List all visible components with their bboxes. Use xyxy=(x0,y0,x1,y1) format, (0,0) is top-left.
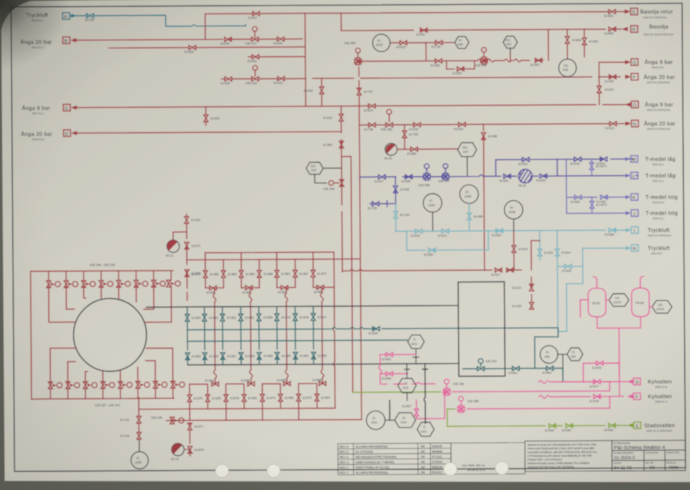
node K box xyxy=(631,194,638,201)
instrument TI XXX mid hexagon xyxy=(398,378,417,393)
arrow into F xyxy=(627,394,633,398)
valve 6J-891 vertical xyxy=(242,395,246,402)
wire R-line basolja xyxy=(341,29,621,31)
valve 6J-703 vertical xyxy=(402,131,406,138)
wire PI1048 red drop 6J-623 xyxy=(513,231,515,270)
pair valve 6J-888 xyxy=(319,381,326,385)
instrument FI 046 xyxy=(540,346,558,364)
wire H-line tryckluft xyxy=(583,247,626,249)
valve 6J-864 xyxy=(512,366,519,370)
wire F link down xyxy=(609,396,611,408)
notes block xyxy=(525,441,612,472)
teal valve 6J-857 xyxy=(221,353,225,360)
wire vertical 340 C to 617-line xyxy=(341,106,342,272)
valve 6J-651 xyxy=(504,174,511,178)
valve 6J-679 xyxy=(596,361,603,365)
wire A collect line xyxy=(205,251,334,254)
valve 6J-635 vertical xyxy=(204,115,208,122)
wire vertical 304.9 B to C xyxy=(304,39,307,106)
wire pink lower link line xyxy=(416,392,444,419)
teal valve 6J-859 xyxy=(257,352,261,359)
wire pink 896 branch xyxy=(380,373,408,375)
spray valve 6JE-336 xyxy=(167,280,181,287)
level alarm LIA hexagon 1 xyxy=(609,294,629,307)
valve 6J-892b xyxy=(609,423,616,427)
black internals line upper xyxy=(146,305,458,307)
valve 6J-610 xyxy=(400,41,407,45)
node O box xyxy=(631,101,638,108)
bottom manifold unit stubs xyxy=(50,388,173,399)
valve 6J-4274 vertical xyxy=(591,159,593,176)
wire purple drop 394 xyxy=(394,177,396,204)
wire K riser 565 xyxy=(565,159,567,213)
valve 6J-625b xyxy=(225,77,232,81)
valve 6J-638 xyxy=(609,228,616,232)
valve 6J-652 xyxy=(522,157,529,161)
control valve 6JE-357 xyxy=(477,367,484,371)
valve 6J-617 xyxy=(507,268,514,272)
valve 6J-601 xyxy=(609,10,616,14)
valve 6J-876 vertical xyxy=(187,395,191,402)
wire 6J-635 drop xyxy=(205,107,207,125)
valve 6J-896 xyxy=(386,372,393,376)
wire 642 drop xyxy=(539,231,541,260)
teal valve 6J-847 xyxy=(311,314,315,321)
valve 6J-677 xyxy=(593,380,600,384)
wire G link down xyxy=(609,382,611,391)
pink vessel YD-01 xyxy=(588,288,606,317)
valve 6J-647 xyxy=(600,157,607,161)
bottom valve row verticals xyxy=(190,390,318,420)
valve 6J-619 xyxy=(459,122,466,126)
valve 6J-889 vertical xyxy=(278,394,282,401)
valve 6J-629 xyxy=(189,45,196,49)
valve 6J-622 xyxy=(457,67,464,71)
control valve 6JE-317 xyxy=(251,37,258,41)
arrow into Q xyxy=(625,60,631,64)
valve 6J-893 vertical xyxy=(206,395,210,402)
control valve 6JE-359 xyxy=(443,388,450,395)
teal valve 6J-849 xyxy=(275,314,279,321)
teal valve 6J-848 xyxy=(293,314,297,321)
wire vessel outlet teal xyxy=(463,368,563,382)
wire 6J-632 line xyxy=(248,56,305,58)
spray valve 6JE-333 xyxy=(117,280,131,287)
valve 6J-731 vertical xyxy=(137,416,141,423)
wire bottom pair drops xyxy=(189,383,316,391)
valve 6J-653 xyxy=(540,174,547,178)
wire TI mid stub xyxy=(406,393,408,401)
wire green riser to E-line xyxy=(446,409,448,426)
arrow into M xyxy=(625,157,631,161)
valve 6J-875 vertical xyxy=(224,395,228,402)
wire 897 drop xyxy=(415,400,417,419)
valve 6J-877 vertical xyxy=(188,423,192,430)
wire bottom manifold header xyxy=(31,397,174,400)
node G box xyxy=(633,378,640,385)
valve 6J-649 xyxy=(600,195,607,199)
spray valve 6JE-338 xyxy=(66,382,80,389)
valve 6J-689 xyxy=(411,147,418,151)
valve 6J-963 vertical xyxy=(339,141,343,148)
punch hole 3 xyxy=(444,462,457,475)
valve 6J-863 xyxy=(546,366,553,370)
valve 6J-878 vertical xyxy=(188,446,192,453)
wire teal line2 xyxy=(187,340,407,341)
vessel YD-01 drain stub xyxy=(580,300,588,317)
teal valve 6J-851 xyxy=(239,314,243,321)
valve 6J-943 xyxy=(565,264,572,268)
instrument FI XXX circle xyxy=(366,411,385,430)
wire M-L riser 494.5 xyxy=(495,160,497,177)
arrow into J xyxy=(626,211,632,215)
arrow into K xyxy=(625,195,631,199)
wire second steam line 6J-629 xyxy=(109,47,305,48)
wire collector A-prime xyxy=(139,408,335,409)
valve 6J-885 vertical xyxy=(203,271,207,278)
valve 6J-650 xyxy=(575,195,582,199)
wire S-drop at 304.9 xyxy=(304,13,306,39)
arrow into G xyxy=(627,379,633,383)
spray valve 6JE-329 xyxy=(47,281,61,288)
sample point 62-12 xyxy=(172,443,184,455)
valve 6J-634 xyxy=(368,104,375,108)
arrow into S xyxy=(625,9,631,13)
valve 6J-869 vertical xyxy=(221,271,225,278)
level alarm LIA hexagon 2 xyxy=(652,301,672,314)
wire 6J-731 branch xyxy=(138,397,140,440)
valve 6J-613 xyxy=(610,122,617,126)
control valve 6JE-304 xyxy=(481,57,488,64)
arrow into D xyxy=(71,131,77,135)
wire riser1 branch xyxy=(341,156,352,392)
wire 6J-626 drop xyxy=(321,78,323,106)
wire purple main L-line xyxy=(360,174,638,177)
control valve 6JE-318 xyxy=(252,77,259,81)
valve 6J-630 xyxy=(277,37,284,41)
wire riser2 main xyxy=(359,67,362,419)
wire A end riser 332 xyxy=(333,252,335,408)
arrow into N xyxy=(625,121,631,125)
valve 6J-626 vertical xyxy=(320,87,324,94)
reactor vessel circle xyxy=(73,298,147,371)
wire FI046 connector and drop xyxy=(558,354,567,368)
valve 6J-618 vertical xyxy=(339,114,343,121)
valve 6JE-345 unit xyxy=(170,417,184,424)
teal valve 6J-862 xyxy=(311,352,315,359)
teal valve 6J-853 xyxy=(202,314,206,321)
wire green inlet 6JE-359 xyxy=(353,391,441,393)
valve 6J-607 xyxy=(535,58,542,62)
punch hole 2 xyxy=(267,464,280,477)
valve row drops from A xyxy=(205,252,313,288)
node S box xyxy=(631,8,638,15)
control valve 6JE-358 xyxy=(458,406,465,413)
wire R drop 548 xyxy=(547,29,549,60)
node E box xyxy=(634,422,641,429)
valve 6J-609 xyxy=(435,59,442,63)
spray valve 6JE-334 xyxy=(134,280,148,287)
valve 6J-637 xyxy=(378,175,385,179)
wire PI1050 drop xyxy=(468,203,470,231)
node Q box xyxy=(631,59,638,66)
node C box xyxy=(63,104,70,111)
wire C-line anga 9 bar to O xyxy=(77,105,626,108)
instrument FIC 044 hexagon xyxy=(306,162,323,174)
valve 6J-895 xyxy=(386,352,393,356)
wire drop 425.6 xyxy=(425,43,427,61)
wire P-line anga 20 bar xyxy=(222,77,630,79)
vessel YD-02 vent curl xyxy=(640,276,643,287)
wire J-line xyxy=(567,212,626,214)
teal manifold verticals xyxy=(187,306,313,365)
punch hole 4 xyxy=(495,461,508,474)
spray valve 6JE-332 xyxy=(99,280,113,287)
wire S-drop at 205 xyxy=(204,14,206,40)
wire I-line tryckluft xyxy=(396,230,626,231)
wire 6J-622 bypass xyxy=(446,61,474,69)
stamp box xyxy=(451,443,525,475)
spray feed lines into reactor bottom xyxy=(50,348,173,383)
wire dark TI2 drop xyxy=(422,364,427,424)
sample point 62-11 xyxy=(173,232,187,239)
valve 6J-729 xyxy=(435,40,442,44)
arrow into L xyxy=(625,174,631,178)
wire 644 drop xyxy=(556,230,559,331)
pair valve 6J-894 xyxy=(212,382,219,386)
valve 6J-631 xyxy=(278,77,285,81)
teal valve 6J-850 xyxy=(257,314,261,321)
spray valve 6JE-340 xyxy=(101,382,115,389)
arrow into B xyxy=(70,38,76,42)
valve 6J-872 vertical xyxy=(184,217,188,224)
valve 6J-648 xyxy=(574,157,581,161)
instrument FI 046 hexagon xyxy=(567,348,583,361)
wire tryckluft A-line xyxy=(70,15,245,27)
instrument FI 1049 xyxy=(423,194,442,213)
pair line 4 with valve 6J-880 xyxy=(313,286,334,288)
valve 6J-628 xyxy=(225,37,232,41)
stem circle 6JE-318 xyxy=(253,65,258,70)
wire pink 895 branch xyxy=(380,353,416,355)
wire 6J-728 stub xyxy=(370,201,396,207)
wire 943 crossover line xyxy=(557,248,583,331)
wire FIC047 drop xyxy=(466,157,468,177)
valve 6J-632 xyxy=(252,55,259,59)
valve 6J-874 vertical xyxy=(260,394,264,401)
node N box xyxy=(631,120,638,127)
wire 6J-703 drop xyxy=(403,125,405,150)
teal valve 6J-854 xyxy=(185,314,189,321)
pair valve 6J-890 xyxy=(283,382,290,386)
valve 6J-870 vertical xyxy=(185,270,189,277)
arrow into O xyxy=(625,102,631,106)
node B box xyxy=(63,37,70,44)
teal valve 6J-858 xyxy=(239,353,243,360)
pair line 2 with valve 6J-884 xyxy=(241,287,259,289)
wire vessel2 to LIA2 xyxy=(649,306,652,308)
wire 62-11 riser xyxy=(186,214,189,300)
valve row drops from B xyxy=(187,259,295,288)
valve 6J-668 vertical xyxy=(467,213,471,220)
control valve 6JE-307 xyxy=(442,173,449,180)
teal valve 6J-852 xyxy=(220,314,224,321)
spray feed lines into reactor top xyxy=(49,286,172,323)
wire 617-line xyxy=(342,269,521,271)
control valve 6JE-306 xyxy=(355,58,362,65)
inline filter 35-34 xyxy=(518,169,532,183)
node D box xyxy=(63,130,70,137)
valve 6J-655 xyxy=(405,175,412,179)
valve 6J-602 xyxy=(609,27,616,31)
wire dark stub to PI1059 xyxy=(138,440,140,452)
title block xyxy=(612,440,686,471)
pair line 1 with valve 6J-886 xyxy=(205,287,223,289)
valve 6J-627 xyxy=(253,11,260,15)
valve 6J-620 xyxy=(414,123,421,127)
wire N-line xyxy=(359,124,626,125)
spray valve 6JE-342 xyxy=(136,381,150,388)
valve 6J-740 vertical xyxy=(394,211,398,218)
wire vessel1 to LIA1 xyxy=(606,299,609,301)
valve 6J-887 vertical xyxy=(315,394,319,401)
black internals line lower xyxy=(188,363,459,364)
wire Q riser xyxy=(599,62,625,77)
valve 6J-611 xyxy=(420,28,427,32)
spray valve 6JE-331 xyxy=(82,281,96,288)
top manifold unit stubs xyxy=(49,271,172,281)
wire 62-35 line xyxy=(397,148,458,150)
node P box xyxy=(631,73,638,80)
arrow into H xyxy=(626,246,632,250)
wire black drop to FI xyxy=(389,400,391,420)
punch hole 1 xyxy=(215,464,228,477)
instrument FIC 042 hexagon xyxy=(503,36,517,48)
four long drop lines with flex xyxy=(213,288,217,384)
valve 6J-636 vertical xyxy=(393,186,397,193)
arrow into C xyxy=(71,105,77,109)
wire 6J-679 branch xyxy=(583,363,619,382)
node L box xyxy=(631,172,638,179)
node I box xyxy=(631,227,638,234)
pink vessel YD-02 xyxy=(631,288,649,317)
wire TI mid drop from black line xyxy=(404,364,409,379)
wire pink drop valve link xyxy=(618,361,620,363)
node A box xyxy=(63,13,70,20)
instrument PI 042 hexagon xyxy=(455,36,469,48)
valve 6J-899 xyxy=(566,424,573,428)
wire K-line xyxy=(567,196,626,198)
spray valve 6JE-339 xyxy=(83,382,97,389)
valve 6J-732 vertical xyxy=(137,432,141,439)
instrument PI 1050 xyxy=(460,185,479,204)
arrow P into box xyxy=(625,75,631,79)
spray valve 6JE-335 xyxy=(152,280,166,287)
wire vessels bottom header xyxy=(597,317,641,397)
teal valve 6J-861 xyxy=(293,352,297,359)
wire 358 output line xyxy=(467,407,610,410)
instrument PI 1048 xyxy=(504,201,523,220)
node F box xyxy=(633,393,640,400)
valve 6J-868 vertical xyxy=(257,270,261,277)
teal valve 6J-856 xyxy=(203,353,207,360)
valve 6J-897 vertical xyxy=(414,409,418,416)
wire B collect line xyxy=(187,258,361,261)
control valve 6JE-302 xyxy=(386,123,393,127)
wire teal line1 kylvatten xyxy=(187,326,558,370)
valve 6J-900 xyxy=(549,424,556,428)
instrument PI 1059 xyxy=(131,452,148,469)
wire M-line xyxy=(496,158,633,161)
instrument FIC 047 hexagon xyxy=(458,143,477,157)
control valve 6JE-300 xyxy=(423,173,430,180)
pair line 3 with valve 6J-882 xyxy=(277,286,295,288)
arrow into I xyxy=(626,228,632,232)
instrument PI 1040 xyxy=(373,34,391,51)
spray valve 6JE-344 xyxy=(171,381,185,388)
valve 6J-727 vertical xyxy=(357,88,361,95)
valve 6J-871 vertical xyxy=(185,242,189,249)
wire G-line kylvatten xyxy=(539,380,613,383)
wire 359 output line xyxy=(453,390,610,393)
valve 6J-624b vertical xyxy=(529,284,533,291)
wire collector B-prime xyxy=(166,420,361,421)
wire teal drop 394 to I-line xyxy=(395,204,397,232)
spray valve 6JE-341 xyxy=(118,381,132,388)
node R box xyxy=(631,26,638,33)
valve 6J-883 vertical xyxy=(239,271,243,278)
wire FIC044 to riser xyxy=(315,168,342,183)
wire TI upper thermowell xyxy=(413,349,419,364)
vessel YD-01 vent curl xyxy=(593,277,596,288)
valve 6J-625 xyxy=(609,75,616,79)
node H box xyxy=(631,245,638,252)
control valve 6JE-309 xyxy=(340,180,344,187)
node J box xyxy=(631,210,638,217)
valve 6J-726 xyxy=(369,123,376,127)
valve 6J-625b vertical xyxy=(529,302,533,309)
spray valve 6JE-343 xyxy=(153,381,167,388)
instrument FI XXX hexagon xyxy=(395,413,416,428)
wire S-drop at 341 to R-line xyxy=(340,13,342,31)
valve 6J-678 xyxy=(594,394,601,398)
pair valve 6J-892 xyxy=(248,382,255,386)
wire FI1049 drop xyxy=(432,212,434,231)
wire FIC 042 drop xyxy=(509,48,511,54)
wire B-line xyxy=(76,39,302,40)
wire D-line xyxy=(77,132,341,133)
tank vessel rectangle xyxy=(458,282,505,376)
valve 6J-641 xyxy=(442,229,449,233)
instrument TI XXX upper hexagon xyxy=(408,335,425,349)
spray valve 6JE-337 xyxy=(48,382,62,389)
wire 607-line xyxy=(358,59,543,63)
valve 6J-662 xyxy=(428,248,435,252)
valve 6J-881 vertical xyxy=(275,270,279,277)
valve 6J-4273 vertical xyxy=(591,197,593,213)
wire PS 040 riser xyxy=(566,29,568,59)
valve 6J-846 xyxy=(373,327,380,331)
valve 6J-867 vertical xyxy=(293,270,297,277)
wire 966 riser xyxy=(483,124,484,270)
valve 6J-639 xyxy=(496,229,503,233)
wire 6J-729 branch xyxy=(426,42,455,44)
PI 1040 instrument line xyxy=(390,42,426,44)
valve 6J-616 xyxy=(495,268,502,272)
wire FI connector xyxy=(385,419,395,421)
wire PI1048 drop dark xyxy=(513,219,515,231)
valve 6J-605 stub xyxy=(583,29,585,57)
